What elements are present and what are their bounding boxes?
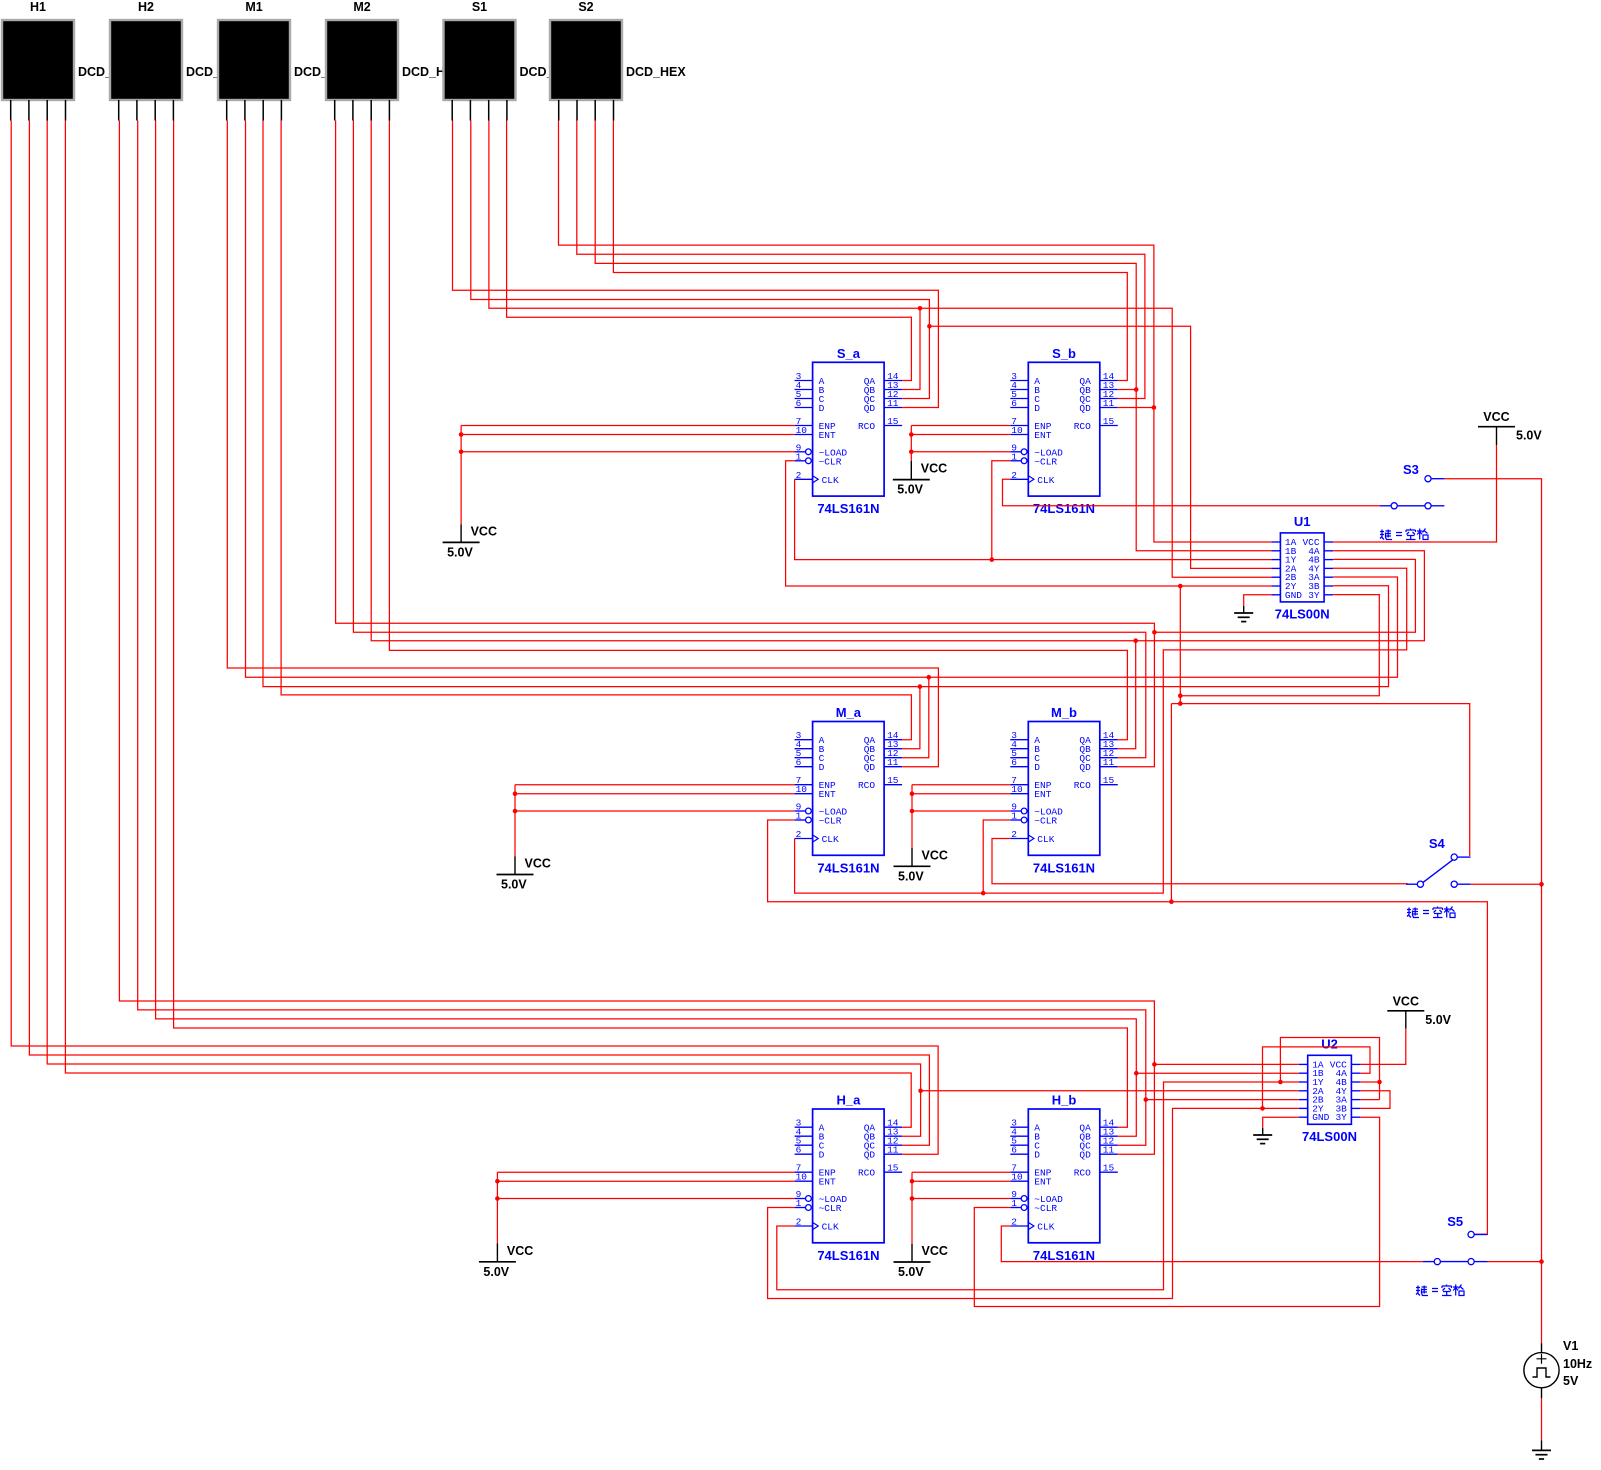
H_b pin 3 A: [1010, 1126, 1028, 1128]
svg-text:S4: S4: [1429, 836, 1446, 851]
svg-text:S5: S5: [1447, 1214, 1463, 1229]
wire S_b CLK to S3 pole: [1003, 479, 1380, 506]
wire S2 pin4 to S_b QA: [613, 121, 1127, 381]
svg-text:RCO: RCO: [1074, 780, 1091, 791]
wire S2 pin1 to S_b QD and U1 1A: [559, 121, 1272, 543]
junction: [513, 791, 518, 796]
svg-text:15: 15: [1103, 775, 1115, 786]
svg-text:10: 10: [1011, 784, 1023, 795]
S5 bottom throw stub: [1474, 1261, 1487, 1263]
H_a pin 14 QA: [884, 1126, 902, 1128]
ground symbol of V1: [1541, 1443, 1543, 1450]
wire H1 pin4 to H_a QA: [65, 121, 911, 1128]
S5 pole stub: [1423, 1261, 1434, 1263]
pin 1 stub of M2: [334, 100, 336, 121]
svg-text:3Y: 3Y: [1335, 1112, 1347, 1123]
wire H_b CLK to S5 pole: [1001, 1226, 1423, 1262]
pin 3 stub of S1: [488, 100, 490, 121]
switch S3 SPDT: [1391, 503, 1397, 509]
pin 4 stub of S2: [613, 100, 615, 121]
counter H_b 74LS161N: [1028, 1109, 1100, 1243]
junction S_b QB: [1134, 387, 1139, 392]
S_a pin 9 ~LOAD: [795, 451, 806, 453]
H_a pin 12 QC: [884, 1144, 902, 1146]
U2 right pin 3B: [1351, 1107, 1360, 1109]
pin 3 stub of M2: [370, 100, 372, 121]
svg-text:15: 15: [887, 775, 899, 786]
svg-text:D: D: [1034, 403, 1040, 414]
svg-text:6: 6: [1011, 757, 1017, 768]
wire M1 pin1 to M_a QD: [227, 121, 938, 767]
M_b pin 15 RCO: [1100, 784, 1118, 786]
VCC power symbol for U2: [1387, 1010, 1424, 1012]
junction M_b QD / U1 4B: [1152, 630, 1157, 635]
svg-text:1: 1: [796, 1198, 802, 1209]
wire set-net to S4 top throw: [1171, 704, 1469, 856]
junction M_a QC / U1 3A: [927, 675, 932, 680]
wire U2 GND to ground: [1263, 1117, 1299, 1128]
M_b pin 7 ENP: [1010, 784, 1028, 786]
U1 right pin 4Y: [1324, 567, 1333, 569]
svg-text:15: 15: [887, 1163, 899, 1174]
wire M1 pin4 to M_a QA: [281, 121, 911, 740]
svg-text:2: 2: [1011, 1217, 1017, 1228]
wire M1 pin2 to M_a QC and U1 3A: [246, 121, 1398, 678]
U2 right pin VCC: [1351, 1063, 1360, 1065]
pin 2 stub of S1: [469, 100, 471, 121]
junction: [910, 809, 915, 814]
U1 left pin 1Y: [1271, 559, 1280, 561]
VCC power symbol for M_a: [497, 874, 534, 876]
pin 4 stub of M1: [280, 100, 282, 121]
pin 3 stub of M1: [262, 100, 264, 121]
svg-text:VCC: VCC: [1483, 410, 1509, 424]
svg-text:1: 1: [1011, 811, 1017, 822]
wire S1 pin1 to S_a QD: [453, 121, 939, 408]
svg-text:RCO: RCO: [1074, 421, 1091, 432]
label key=space (键 = 空格): [1416, 1285, 1464, 1296]
wire M2 pin1 to M_b QD and U1 4B: [336, 121, 1155, 767]
svg-text:H2: H2: [138, 0, 154, 14]
S4 top throw stub: [1457, 856, 1470, 858]
counter M_b 74LS161N: [1028, 722, 1100, 856]
svg-text:2: 2: [796, 829, 802, 840]
junction H_b QB / U2 1B: [1134, 1071, 1139, 1076]
svg-text:74LS161N: 74LS161N: [817, 1248, 879, 1263]
VCC power symbol for S_a: [443, 541, 480, 543]
U2 left pin 2B: [1299, 1099, 1308, 1101]
pin 3 stub of S2: [594, 100, 596, 121]
wire VCC to M_b ENP/ENT/~LOAD: [912, 784, 1010, 786]
svg-text:5.0V: 5.0V: [898, 869, 924, 883]
NAND chip U2 74LS00N: [1308, 1055, 1352, 1124]
M_b pin 11 QD: [1100, 766, 1118, 768]
junction 2Y riser / 3Y: [1178, 693, 1183, 698]
S_b pin 14 QA: [1100, 380, 1118, 382]
U1 left pin 2A: [1271, 567, 1280, 569]
svg-text:5.0V: 5.0V: [898, 1265, 924, 1279]
U1 right pin 4A: [1324, 550, 1333, 552]
clock source V1: [1541, 1343, 1543, 1352]
M_b pin 3 A: [1010, 739, 1028, 741]
switch S5 SPDT: [1434, 1259, 1440, 1265]
S_a pin 12 QC: [884, 398, 902, 400]
svg-text:CLK: CLK: [822, 475, 839, 486]
M_a pin 7 ENP: [795, 784, 813, 786]
junction: [495, 1179, 500, 1184]
VCC power symbol for S_b: [893, 479, 930, 481]
svg-text:D: D: [1034, 1150, 1040, 1161]
svg-text:U2: U2: [1321, 1036, 1338, 1051]
H_a pin 1 ~CLR: [795, 1207, 806, 1209]
svg-text:M_a: M_a: [836, 705, 862, 720]
svg-text:ENT: ENT: [1034, 1177, 1051, 1188]
svg-text:10: 10: [796, 425, 808, 436]
wire U1 VCC pin: [1333, 445, 1496, 542]
M_b pin 9 ~LOAD: [1010, 810, 1021, 812]
H_a pin 9 ~LOAD: [795, 1198, 806, 1200]
pin 2 stub of M2: [352, 100, 354, 121]
svg-text:D: D: [819, 1150, 825, 1161]
svg-text:QD: QD: [864, 403, 876, 414]
S5 arm (closed): [1440, 1261, 1468, 1263]
U2 right pin 4A: [1351, 1072, 1360, 1074]
S_a pin 11 QD: [884, 407, 902, 409]
svg-text:15: 15: [1103, 416, 1115, 427]
svg-text:ENT: ENT: [819, 789, 836, 800]
svg-text:H1: H1: [30, 0, 46, 14]
svg-text:2: 2: [796, 470, 802, 481]
M_b pin 12 QC: [1100, 757, 1118, 759]
svg-text:11: 11: [887, 1145, 899, 1156]
junction H_b QD / U2 1A: [1152, 1062, 1157, 1067]
S_b pin 2 CLK: [1010, 478, 1028, 480]
VCC power symbol for U1: [1478, 426, 1515, 428]
wire U1 1Y to S_a CLK and S_b ~CLR: [795, 479, 1272, 559]
H_b pin 4 B: [1010, 1135, 1028, 1137]
counter M_a 74LS161N: [813, 722, 885, 856]
wire M2 pin3 to M_b QB and U1 4A: [371, 121, 1135, 749]
svg-text:H_a: H_a: [836, 1093, 861, 1108]
wire VCC to S_a ENP/ENT/~LOAD: [461, 425, 794, 427]
pin 2 stub of H2: [136, 100, 138, 121]
wire U2 3Y to H_b ~CLR: [974, 1117, 1379, 1306]
pin 2 stub of M1: [244, 100, 246, 121]
wire M2 pin2 to M_b QC: [353, 121, 1145, 758]
counter S_a 74LS161N: [813, 362, 885, 496]
U2 left pin GND: [1299, 1116, 1308, 1118]
wire H1 pin2 to H_a QC: [29, 121, 929, 1146]
H_b pin 12 QC: [1100, 1144, 1118, 1146]
wire H2 pin1 to H_b QD and U2 1A: [119, 121, 1154, 1155]
junction: [910, 791, 915, 796]
junction S5: [1539, 1259, 1544, 1264]
S_b pin 9 ~LOAD: [1010, 451, 1021, 453]
pin 1 stub of S2: [558, 100, 560, 121]
U1 left pin 2Y: [1271, 585, 1280, 587]
display M1 (DCD_HEX): [218, 20, 290, 100]
H_a pin 11 QD: [884, 1153, 902, 1155]
svg-text:VCC: VCC: [1393, 994, 1419, 1008]
pin 3 stub of H2: [154, 100, 156, 121]
svg-text:1: 1: [1011, 451, 1017, 462]
junction VCC riser/LOAD: [459, 450, 464, 455]
junction S4: [1539, 882, 1544, 887]
S_b pin 12 QC: [1100, 398, 1118, 400]
H_b pin 14 QA: [1100, 1126, 1118, 1128]
U2 right pin 4B: [1351, 1081, 1360, 1083]
svg-text:3Y: 3Y: [1308, 590, 1320, 601]
pin 1 stub of M1: [226, 100, 228, 121]
svg-text:QD: QD: [864, 1150, 876, 1161]
S_a pin 1 ~CLR: [795, 460, 806, 462]
switch S4 SPDT: [1417, 881, 1423, 887]
S_a pin 13 QB: [884, 389, 902, 391]
junction H_b QC / U2 2B: [1144, 1097, 1149, 1102]
pin 4 stub of M2: [388, 100, 390, 121]
svg-text:2: 2: [796, 1217, 802, 1228]
junction 4B: [1377, 1080, 1382, 1085]
S_a pin 4 B: [795, 389, 813, 391]
svg-text:5.0V: 5.0V: [447, 545, 473, 559]
H_b pin 7 ENP: [1010, 1171, 1028, 1173]
pin 2 stub of H1: [28, 100, 30, 121]
H_a pin 4 B: [795, 1135, 813, 1137]
M_a pin 5 C: [795, 757, 813, 759]
M_b pin 13 QB: [1100, 748, 1118, 750]
svg-text:S_a: S_a: [837, 346, 861, 361]
S_b pin 4 B: [1010, 389, 1028, 391]
S_a pin 14 QA: [884, 380, 902, 382]
junction: [495, 1196, 500, 1201]
svg-text:M2: M2: [353, 0, 370, 14]
svg-text:2: 2: [1011, 829, 1017, 840]
svg-text:H_b: H_b: [1052, 1093, 1077, 1108]
svg-text:GND: GND: [1285, 590, 1302, 601]
wire VCC to M_a ENP/ENT/~LOAD: [515, 784, 795, 786]
S_b pin 7 ENP: [1010, 425, 1028, 427]
U1 right pin VCC: [1324, 541, 1333, 543]
H_a pin 3 A: [795, 1126, 813, 1128]
junction S_a QC / U1 2A: [927, 324, 932, 329]
svg-text:1: 1: [796, 451, 802, 462]
S4 arm (open): [1423, 860, 1453, 883]
svg-text:~CLR: ~CLR: [819, 456, 842, 467]
junction 1Y / S_b CLR: [990, 557, 995, 562]
svg-text:5V: 5V: [1563, 1374, 1579, 1388]
svg-text:RCO: RCO: [858, 780, 875, 791]
svg-text:74LS00N: 74LS00N: [1275, 606, 1330, 621]
svg-text:CLK: CLK: [1037, 834, 1054, 845]
wire U2 4Y to 3B: [1360, 1091, 1390, 1109]
S4 pole stub: [1406, 883, 1417, 885]
VCC power symbol for H_b: [894, 1261, 931, 1263]
svg-text:GND: GND: [1312, 1112, 1329, 1123]
svg-text:ENT: ENT: [819, 1177, 836, 1188]
wire M2 pin4 to M_b QA: [389, 121, 1127, 740]
junction: [909, 450, 914, 455]
label key=space (键 = 空格): [1380, 529, 1428, 540]
wire VCC to S_b ENP/ENT/~LOAD: [911, 425, 1010, 427]
H_b pin 6 D: [1010, 1153, 1028, 1155]
svg-text:QD: QD: [1079, 403, 1091, 414]
svg-text:QD: QD: [864, 762, 876, 773]
M_a pin 4 B: [795, 748, 813, 750]
wire tap S_a QC to U1 2A: [929, 326, 1271, 568]
ground symbol of U2: [1262, 1128, 1264, 1135]
svg-text:VCC: VCC: [922, 848, 948, 862]
junction set-net: [1169, 899, 1174, 904]
svg-text:ENT: ENT: [819, 430, 836, 441]
junction S_b QD: [1152, 405, 1157, 410]
wire S4 bottom throw to V1 clock line: [1471, 883, 1542, 885]
S_b pin 13 QB: [1100, 389, 1118, 391]
M_b pin 10 ENT: [1010, 793, 1028, 795]
svg-text:S3: S3: [1403, 462, 1419, 477]
wire S2 pin2 to S_b QC: [577, 121, 1145, 399]
M_b pin 6 D: [1010, 766, 1028, 768]
wire U1 2Y to S_a ~CLR and S4/S5 set net: [786, 461, 1272, 586]
svg-text:D: D: [819, 762, 825, 773]
svg-text:D: D: [1034, 762, 1040, 773]
M_a pin 13 QB: [884, 748, 902, 750]
VCC power symbol for M_b: [894, 865, 931, 867]
wire V1 negative to ground: [1541, 1398, 1543, 1440]
S4 bottom throw stub: [1457, 883, 1470, 885]
svg-text:1: 1: [796, 811, 802, 822]
svg-text:RCO: RCO: [1074, 1168, 1091, 1179]
U1 left pin GND: [1271, 594, 1280, 596]
U2 left pin 2A: [1299, 1090, 1308, 1092]
svg-text:QD: QD: [1079, 762, 1091, 773]
svg-text:S1: S1: [472, 0, 487, 14]
U1 left pin 1B: [1271, 550, 1280, 552]
pin 3 stub of H1: [46, 100, 48, 121]
wire S1 pin2 to S_a QC: [471, 121, 930, 399]
svg-text:QD: QD: [1079, 1150, 1091, 1161]
S_b pin 6 D: [1010, 407, 1028, 409]
H_a pin 5 C: [795, 1144, 813, 1146]
S_b pin 3 A: [1010, 380, 1028, 382]
svg-text:11: 11: [887, 398, 899, 409]
S3 bottom throw stub: [1431, 505, 1444, 507]
wire S2 pin3 to S_b QB and U1 1B: [595, 121, 1271, 551]
M_b pin 4 B: [1010, 748, 1028, 750]
H_b pin 11 QD: [1100, 1153, 1118, 1155]
wire S1 pin4 to S_a QA: [507, 121, 912, 381]
svg-text:CLK: CLK: [822, 1222, 839, 1233]
svg-text:74LS161N: 74LS161N: [1033, 860, 1095, 875]
junction: [513, 809, 518, 814]
wire U1 4Y to M_a CLK and M_b ~CLR: [795, 568, 1407, 893]
wire M_b CLK to S4 pole: [992, 839, 1408, 884]
svg-text:15: 15: [887, 416, 899, 427]
svg-text:~CLR: ~CLR: [1034, 456, 1057, 467]
pin 1 stub of S1: [451, 100, 453, 121]
U2 right pin 4Y: [1351, 1090, 1360, 1092]
junction M_b QB / U1 4A: [1133, 638, 1138, 643]
svg-text:ENT: ENT: [1034, 430, 1051, 441]
wire U2 2Y to H_a ~CLR and 4A: [768, 1108, 1299, 1298]
wire VCC to H_b ENP/ENT/~LOAD: [912, 1171, 1010, 1173]
svg-text:74LS161N: 74LS161N: [817, 501, 879, 516]
junction 2Y riser: [1178, 584, 1183, 589]
junction H_a QB / U2 2A: [918, 1089, 923, 1094]
S_a pin 3 A: [795, 380, 813, 382]
H_b pin 5 C: [1010, 1144, 1028, 1146]
M_a pin 2 CLK: [795, 838, 813, 840]
S_a pin 10 ENT: [795, 434, 813, 436]
wire S5 bottom throw to V1 clock line: [1488, 1261, 1542, 1263]
counter H_a 74LS161N: [813, 1109, 885, 1243]
ground symbol of U1: [1243, 606, 1245, 613]
junction 2Y / 4A loop: [1260, 1106, 1265, 1111]
svg-text:CLK: CLK: [1037, 1222, 1054, 1233]
display H1 (DCD_HEX): [2, 20, 74, 100]
M_a pin 1 ~CLR: [795, 819, 806, 821]
S3 pole stub: [1380, 505, 1391, 507]
svg-text:11: 11: [887, 757, 899, 768]
svg-text:RCO: RCO: [858, 421, 875, 432]
junction VCC riser/ENT: [459, 432, 464, 437]
svg-text:10: 10: [796, 1172, 808, 1183]
M_a pin 11 QD: [884, 766, 902, 768]
svg-text:10: 10: [1011, 1172, 1023, 1183]
wire H2 pin2 to H_b QC and U2 2B: [138, 121, 1146, 1146]
U1 right pin 3A: [1324, 576, 1333, 578]
wire S1 pin3 to S_a QB and U1 2B: [489, 121, 920, 390]
counter S_b 74LS161N: [1028, 362, 1100, 496]
junction: [910, 1196, 915, 1201]
VCC power symbol for H_a: [479, 1261, 516, 1263]
S_a pin 6 D: [795, 407, 813, 409]
svg-text:6: 6: [796, 398, 802, 409]
svg-text:VCC: VCC: [471, 524, 497, 538]
H_b pin 15 RCO: [1100, 1171, 1118, 1173]
M_a pin 9 ~LOAD: [795, 810, 806, 812]
M_b pin 5 C: [1010, 757, 1028, 759]
display S1 (DCD_HEX): [444, 20, 516, 100]
svg-text:~CLR: ~CLR: [1034, 1203, 1057, 1214]
S_b pin 10 ENT: [1010, 434, 1028, 436]
svg-text:S2: S2: [578, 0, 593, 14]
S_a pin 15 RCO: [884, 425, 902, 427]
svg-text:74LS00N: 74LS00N: [1302, 1129, 1357, 1144]
H_b pin 2 CLK: [1010, 1225, 1028, 1227]
pin 1 stub of H1: [10, 100, 12, 121]
S_a pin 7 ENP: [795, 425, 813, 427]
M_a pin 12 QC: [884, 757, 902, 759]
pin 4 stub of H2: [172, 100, 174, 121]
wire VCC to H_a ENP/ENT/~LOAD: [497, 1171, 794, 1173]
svg-text:10: 10: [1011, 425, 1023, 436]
S3 top throw stub: [1431, 478, 1444, 480]
pin 2 stub of S2: [576, 100, 578, 121]
label key=space (键 = 空格): [1407, 907, 1455, 918]
U1 right pin 3Y: [1324, 594, 1333, 596]
svg-text:6: 6: [796, 1145, 802, 1156]
svg-text:74LS161N: 74LS161N: [1033, 501, 1095, 516]
svg-text:2: 2: [1011, 470, 1017, 481]
wire M1 pin3 to M_a QB and U1 3B: [263, 121, 1389, 687]
svg-text:6: 6: [796, 757, 802, 768]
U2 left pin 2Y: [1299, 1107, 1308, 1109]
H_a pin 15 RCO: [884, 1171, 902, 1173]
svg-text:VCC: VCC: [525, 857, 551, 871]
U2 left pin 1A: [1299, 1063, 1308, 1065]
svg-text:74LS161N: 74LS161N: [817, 860, 879, 875]
M_b pin 14 QA: [1100, 739, 1118, 741]
